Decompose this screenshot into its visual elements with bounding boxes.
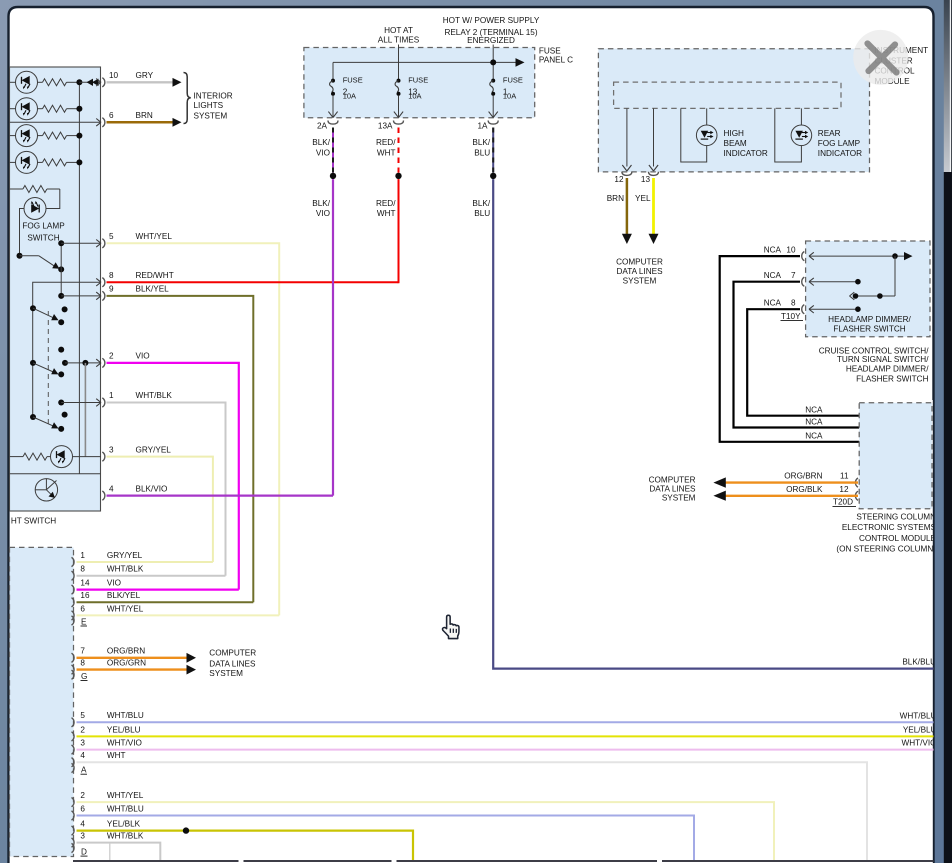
label BLK/BLU right [902,657,936,666]
wire high beam loop [681,108,707,162]
node contact D2 [62,412,68,418]
pin 11 ORG/BRN [855,478,858,487]
svg-text:14: 14 [80,579,90,588]
pin 2Y lower [72,732,75,741]
resistor R1 [38,81,43,83]
wire pin12 internal [626,108,628,166]
svg-text:BLK/: BLK/ [312,138,330,147]
wire fuse2 stub [332,62,334,80]
svg-text:INTERIOR: INTERIOR [194,92,233,101]
svg-text:INDICATOR: INDICATOR [818,149,862,158]
wire WHT/BLU full [77,721,934,723]
wire NCA 7 black [734,282,860,428]
svg-text:WHT: WHT [377,209,396,218]
wire RED/WHT horizontal [107,281,399,283]
svg-text:8: 8 [109,271,114,280]
svg-text:BLK/VIO: BLK/VIO [136,484,168,493]
svg-text:2: 2 [109,352,114,361]
svg-text:GRY/YEL: GRY/YEL [107,551,143,560]
svg-text:10: 10 [786,246,796,255]
svg-text:SWITCH: SWITCH [27,234,59,243]
svg-text:8: 8 [791,299,796,308]
pin E [72,616,75,625]
svg-text:RED/: RED/ [376,199,396,208]
node fog pivot [17,253,23,259]
pin 9 [96,292,101,300]
lamp L3 [16,125,38,147]
svg-text:5: 5 [109,232,114,241]
svg-text:6: 6 [80,604,85,613]
pin 1 lower [72,557,75,566]
pin NCA 10 [802,252,805,261]
svg-text:BLK/: BLK/ [472,138,490,147]
svg-text:COMPUTER: COMPUTER [209,649,256,658]
svg-text:E: E [81,617,87,626]
svg-text:3: 3 [80,832,85,841]
svg-text:NCA: NCA [805,418,823,427]
svg-text:SYSTEM: SYSTEM [623,277,657,286]
resistor R5 fog [10,188,23,190]
lamp fog switch [24,198,46,220]
svg-text:BLK/BLU: BLK/BLU [902,657,936,666]
svg-text:7: 7 [80,647,85,656]
pin 2WY lower [72,798,75,807]
svg-text:HOT AT: HOT AT [384,26,413,35]
svg-text:VIO: VIO [316,209,330,218]
svg-text:5: 5 [80,711,85,720]
svg-text:VIO: VIO [136,352,150,361]
resistor R3 [38,135,43,137]
node pin5 [58,240,64,246]
wire YEL/BLK bottom [77,831,414,861]
svg-text:ORG/BRN: ORG/BRN [784,471,822,480]
svg-text:NCA: NCA [764,299,782,308]
wire GRY [107,81,174,83]
wire WHT/YEL bottom [77,802,775,861]
wire dimmer r1 [809,255,905,257]
svg-text:RED/: RED/ [376,138,396,147]
node fog arm target [58,266,64,272]
svg-text:9: 9 [109,285,114,294]
wire L1 stub [10,81,16,83]
svg-text:7: 7 [791,271,796,280]
pin 10 [96,79,101,87]
svg-text:10A: 10A [503,91,516,100]
svg-text:STEERING COLUMN: STEERING COLUMN [856,512,936,521]
svg-text:FUSE: FUSE [503,76,523,85]
svg-text:WHT: WHT [107,751,126,760]
svg-text:10: 10 [109,71,119,80]
svg-text:13A: 13A [378,121,393,130]
instrument cluster control module box [598,49,869,172]
wire BLK/VIO horizontal [107,495,334,497]
light switch module box [10,67,101,511]
svg-text:HOT W/ POWER SUPPLY: HOT W/ POWER SUPPLY [443,16,540,25]
pin NCA 8 [802,305,805,314]
svg-text:FOG LAMP: FOG LAMP [22,222,65,231]
steering column module box [859,403,932,509]
node pin1 [58,400,64,406]
svg-text:ORG/GRN: ORG/GRN [107,659,146,668]
svg-text:ELECTRONIC SYSTEMS: ELECTRONIC SYSTEMS [842,523,937,532]
wire WHT/YEL lower [77,614,280,616]
wire WHT/VIO full [77,749,934,751]
svg-text:D: D [81,848,87,857]
lamp dimmer [51,446,73,468]
wire L2 stub [10,108,16,110]
svg-text:FUSE: FUSE [343,76,363,85]
svg-text:BLK/YEL: BLK/YEL [107,591,141,600]
node contact C1 [30,360,36,366]
svg-text:4: 4 [80,751,85,760]
svg-text:GRY: GRY [136,71,154,80]
scrollbar thumb dark [944,172,952,863]
svg-text:ENERGIZED: ENERGIZED [467,36,515,45]
svg-text:GRY/YEL: GRY/YEL [136,445,172,454]
svg-text:BLK/YEL: BLK/YEL [136,285,170,294]
node bus junctions [76,79,82,85]
switch arm 2 [33,363,55,373]
svg-text:SYSTEM: SYSTEM [194,112,228,121]
svg-text:3: 3 [80,739,85,748]
svg-text:RED/WHT: RED/WHT [136,271,174,280]
node YEL/BLK splice [183,827,189,833]
pin 13 [649,172,659,176]
wire gray drop [84,363,86,457]
wire BLK/BLU vertical [493,179,933,668]
svg-text:YEL: YEL [635,194,651,203]
wire fuse bus arrow [333,61,517,63]
svg-text:SYSTEM: SYSTEM [209,669,243,678]
wire dimmer mid row [853,295,895,297]
pin 7 lower [72,653,75,662]
wire WHT/BLK bottom [77,843,161,861]
wire GRY/YEL [107,457,213,562]
svg-text:WHT: WHT [377,148,396,157]
svg-text:T20D: T20D [833,498,853,507]
lamp L4 [16,151,38,173]
node splice BLK/BLU [490,173,496,179]
node pin2 mid [82,360,88,366]
svg-text:FUSE: FUSE [539,47,561,56]
node fuse bus [490,59,496,65]
switch arm 3 [33,417,55,427]
svg-text:WHT/BLU: WHT/BLU [107,711,144,720]
wire pin 9 internal [61,295,101,297]
diode arrows pin 10 [79,81,101,83]
wire WHT [77,762,868,861]
svg-text:BRN: BRN [607,194,624,203]
svg-text:WHT/BLU: WHT/BLU [107,804,144,813]
wire stub bottom [109,844,111,861]
pin NCA 7 [802,277,805,286]
wire dimmer r2 [809,281,858,283]
wire rear fog loop [775,108,802,162]
svg-text:BLU: BLU [474,209,490,218]
svg-text:WHT/YEL: WHT/YEL [136,232,173,241]
wire pin 3 internal [73,456,102,458]
svg-text:VIO: VIO [316,148,330,157]
svg-text:ORG/BRN: ORG/BRN [107,647,145,656]
svg-text:1A: 1A [477,121,488,130]
svg-text:WHT/YEL: WHT/YEL [107,604,144,613]
pin 8 [96,278,101,286]
wire dimmer r3 [809,308,858,310]
svg-text:YEL/BLU: YEL/BLU [903,726,937,735]
wire NCA 8 black [747,309,859,416]
svg-text:2A: 2A [317,121,328,130]
lamp rear fog indicator [791,125,812,146]
svg-text:YEL/BLK: YEL/BLK [107,820,141,829]
wire fog loop [46,189,60,209]
wire pin 8 internal [33,282,101,417]
svg-text:1: 1 [109,391,114,400]
wire GRY/YEL lower [77,561,213,563]
pin 4 [102,491,105,500]
svg-text:1: 1 [80,551,85,560]
wire feed 1A [492,45,494,81]
fuse F13 10A [395,79,400,96]
svg-text:COMPUTER: COMPUTER [616,258,663,267]
resistor R2 [38,108,43,110]
svg-text:BLU: BLU [474,148,490,157]
wire WHT/BLK [107,403,226,576]
wire WHT/YEL [107,243,280,615]
wire YEL vertical [652,178,655,235]
transistor rheostat symbol [35,479,57,501]
light switch inner divider [10,473,101,475]
svg-text:WHT/BLK: WHT/BLK [107,565,144,574]
wire linkage dashed [47,311,49,428]
pin A [72,763,75,772]
wire L4 stub [10,161,16,163]
svg-text:NCA: NCA [805,405,823,414]
svg-text:A: A [81,766,87,775]
node splice BLK/VIO [330,173,336,179]
wire fog left [20,209,25,256]
wire YEL/BLU full [77,735,934,737]
pin 3WB lower [72,838,75,847]
wire fuse1 out [492,95,494,117]
node arm2 target [58,371,64,377]
svg-text:10A: 10A [408,91,421,100]
svg-text:HEADLAMP DIMMER/: HEADLAMP DIMMER/ [828,315,911,324]
connector 1A [488,121,498,125]
svg-text:2: 2 [80,791,85,800]
wire fuse2 out [332,95,334,117]
fuse F1 10A [490,79,495,96]
wire VIO lower [77,588,239,590]
wire BLK/VIO fusible dashed [332,128,334,173]
wire WHT/BLK lower [77,575,226,577]
svg-text:BLK/: BLK/ [472,199,490,208]
wire RED/WHT vertical [398,179,400,283]
svg-text:WHT/BLK: WHT/BLK [107,832,144,841]
wire pin5 feed vertical [60,243,62,296]
wire RED/WHT fusible dashed [398,128,400,173]
node pin2 start [62,360,68,366]
svg-text:YEL/BLU: YEL/BLU [107,725,141,734]
svg-text:12: 12 [614,175,624,184]
fuse F2 10A [330,79,335,96]
svg-text:VIO: VIO [107,579,121,588]
svg-text:TURN SIGNAL SWITCH/: TURN SIGNAL SWITCH/ [837,355,929,364]
svg-text:ALL TIMES: ALL TIMES [378,35,420,44]
svg-text:WHT/VIO: WHT/VIO [107,739,142,748]
svg-text:FLASHER SWITCH: FLASHER SWITCH [856,374,928,383]
wire pin13 internal [653,108,655,166]
svg-text:10A: 10A [343,91,356,100]
label steering column module [836,512,936,553]
brace interior lights [184,73,191,124]
pin 5 [96,240,101,248]
pin 4YB lower [72,826,75,835]
svg-text:CONTROL MODULE: CONTROL MODULE [859,534,937,543]
wire pin 1 internal [61,402,101,404]
svg-text:LIGHTS: LIGHTS [194,101,224,110]
resistor R6 dimmer [10,456,24,458]
svg-text:16: 16 [80,591,90,600]
pin 1 [96,399,101,407]
svg-text:REAR: REAR [818,129,841,138]
pin 3 [102,452,105,461]
svg-text:T10Y: T10Y [781,312,801,321]
wire fuse13 out [398,95,400,117]
svg-text:4: 4 [109,484,114,493]
wire BLK/YEL lower [77,601,254,603]
svg-text:HT SWITCH: HT SWITCH [11,517,56,526]
pin G [72,670,75,679]
svg-text:COMPUTER: COMPUTER [649,475,696,484]
wire bottom dark rail [73,860,934,862]
wire VIO [107,363,239,590]
svg-text:FLASHER SWITCH: FLASHER SWITCH [833,324,905,333]
svg-text:ORG/BLK: ORG/BLK [786,485,823,494]
svg-text:2: 2 [80,725,85,734]
svg-text:13: 13 [641,175,651,184]
node arm3 target [58,426,64,432]
pin 8G lower [72,665,75,674]
svg-text:NCA: NCA [805,432,823,441]
lamp L1 [16,71,38,93]
svg-text:DATA LINES: DATA LINES [649,485,696,494]
svg-text:WHT/YEL: WHT/YEL [107,791,144,800]
node arm1 target [58,319,64,325]
svg-text:11: 11 [840,471,849,480]
wire BRN vertical [626,178,629,235]
wire BLK/VIO vertical [332,179,334,496]
pin 8 lower [72,571,75,580]
pin D [72,843,75,852]
node pin9 [58,293,64,299]
wire dimmer drop [894,256,896,296]
svg-text:6: 6 [80,804,85,813]
wire feed 13A [398,45,400,81]
node contact D1 [30,414,36,420]
wire ORG/BRN [725,481,858,483]
wire ORG/BLK [725,495,858,497]
fuse panel C box [304,48,535,118]
wire BLK/YEL [107,296,254,602]
pin 6 lower [72,611,75,620]
svg-text:HEADLAMP DIMMER/: HEADLAMP DIMMER/ [846,365,929,374]
wire BRN [107,121,174,124]
wire pin 5 internal [61,242,101,244]
lower connector box [10,547,74,856]
inner connector box [614,82,841,108]
svg-text:WHT/BLK: WHT/BLK [136,391,173,400]
headlamp dimmer flasher switch box [806,241,930,337]
wire ORG/BRN lower [77,657,188,659]
connector 2A [328,121,338,125]
lamp high beam indicator [696,125,717,146]
node contact B1 [58,347,64,353]
svg-text:WHT/BLU: WHT/BLU [900,711,937,720]
pin 6 [96,119,101,127]
node contact A1 [30,305,36,311]
svg-text:PANEL C: PANEL C [539,56,573,65]
pin 4W lower [72,758,75,767]
wire bus vertical [78,82,80,473]
svg-text:WHT/VIO: WHT/VIO [901,739,936,748]
wire pin 6 internal [10,121,102,123]
cursor pointer [442,615,458,638]
svg-text:SYSTEM: SYSTEM [662,494,696,503]
svg-text:NCA: NCA [764,271,782,280]
wire ORG/GRN lower [77,668,188,670]
wire L3 stub [10,135,16,137]
svg-text:INDICATOR: INDICATOR [724,149,768,158]
pin 16 lower [72,598,75,607]
lamp L2 [16,98,38,120]
svg-text:DATA LINES: DATA LINES [616,267,663,276]
svg-text:3: 3 [109,445,114,454]
wire BLK/BLU fusible dashed [492,128,494,173]
svg-text:BLK/: BLK/ [312,199,330,208]
wire pin 2 internal [65,362,101,364]
svg-text:BEAM: BEAM [724,139,747,148]
wire NCA 10 black [720,256,860,442]
watermark circle X [853,30,908,85]
svg-text:HIGH: HIGH [724,129,745,138]
connector 13A [394,121,404,125]
svg-text:FUSE: FUSE [408,76,428,85]
svg-text:BRN: BRN [136,111,153,120]
switch arm 1 [33,308,55,318]
node splice RED/WHT [395,173,401,179]
pin 6WB lower [72,811,75,820]
pin 3V lower [72,745,75,754]
svg-text:G: G [81,672,87,681]
pin 2 [96,359,101,367]
pin 14 lower [72,585,75,594]
svg-text:(ON STEERING COLUMN): (ON STEERING COLUMN) [836,545,936,554]
svg-text:6: 6 [109,111,114,120]
svg-text:12: 12 [839,485,849,494]
svg-text:8: 8 [80,565,85,574]
svg-text:8: 8 [80,659,85,668]
svg-text:4: 4 [80,820,85,829]
svg-text:DATA LINES: DATA LINES [209,660,256,669]
resistor R4 [38,161,43,163]
svg-text:FOG LAMP: FOG LAMP [818,139,861,148]
pin 12 ORG/BLK [855,491,858,500]
node contact A2 [62,306,68,312]
svg-text:NCA: NCA [764,246,782,255]
pin 12 [622,172,632,176]
pin 5W lower [72,718,75,727]
wire WHT/BLU bottom [77,816,695,862]
